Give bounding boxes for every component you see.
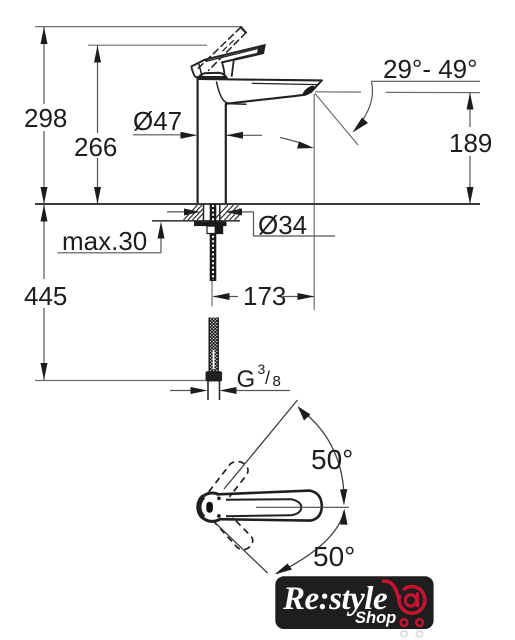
lever inner highlight (207, 48, 262, 62)
lever neck right (232, 60, 234, 76)
G3/8 tube left (207, 382, 209, 401)
head dot lower (217, 514, 221, 518)
lever bottom edge emphasis (236, 53, 263, 59)
faucet body right edge (225, 104, 227, 204)
svg-text:266: 266 (74, 132, 117, 162)
lever outer (219, 491, 322, 521)
spout end face (311, 80, 322, 92)
counter top line (35, 203, 480, 205)
dashed raised lever line A (198, 27, 241, 68)
dim 29-49 underline (372, 80, 481, 82)
lever outline (192, 45, 265, 66)
arrow 298 top (41, 27, 48, 44)
arrow 173 left (213, 293, 230, 300)
svg-text:445: 445 (24, 281, 67, 311)
arrow counter hole left (184, 209, 201, 216)
shank left wall (203, 204, 205, 221)
svg-text:173: 173 (243, 281, 286, 311)
svg-text:G: G (237, 366, 256, 393)
arrow upper arc top (298, 406, 311, 421)
lever neck left (222, 62, 225, 76)
crimp collar (206, 371, 223, 381)
arrow 298 bottom (41, 187, 48, 204)
spout top inner highlight (252, 83, 317, 84)
svg-text:298: 298 (24, 103, 67, 133)
svg-text:Ø34: Ø34 (258, 210, 307, 240)
cart @ (384, 581, 425, 626)
arrow lower arc top (340, 509, 348, 525)
arrow max30 up (158, 222, 165, 239)
dashed raised lever mid (220, 41, 234, 54)
svg-text:29°- 49°: 29°- 49° (383, 54, 478, 84)
handle centerline (256, 506, 349, 508)
aerator (301, 84, 316, 97)
arrow counter hole right (226, 209, 243, 216)
lower 50 line (216, 524, 268, 574)
lower 50 arc (277, 511, 344, 574)
lever beak bottom (192, 66, 203, 78)
counter hole arrow left tail (167, 211, 185, 213)
Ø34 leader (226, 211, 254, 213)
braided hose (209, 318, 218, 372)
ext line spout outlet horiz (189 top) (315, 91, 361, 93)
spout underside (226, 95, 304, 104)
shank right wall (219, 204, 221, 221)
logo box (275, 576, 433, 629)
arrow 29-49 arc end (353, 118, 369, 133)
dim 298 vertical (43, 27, 45, 104)
lever inner contour (226, 499, 301, 516)
GROHE dot capsule (206, 502, 213, 513)
dim 266 vertical (97, 46, 99, 134)
mounting nut (207, 226, 223, 233)
ext line hose end (445 bottom) (35, 380, 206, 382)
dim 173 tails (214, 296, 239, 298)
svg-text:Ø47: Ø47 (133, 106, 182, 136)
ext line vertical from outlet (313, 94, 315, 310)
ext line top 298 (35, 26, 243, 28)
arrow Ø47 left (181, 132, 198, 139)
wheels (401, 619, 408, 626)
dashed raised lever line B (209, 33, 247, 71)
threaded rod (210, 204, 217, 281)
arrow upper arc bottom (340, 489, 347, 506)
arc 29-49 (356, 81, 372, 128)
faucet centerline below rod (211, 281, 213, 307)
arrow 266 top (94, 46, 101, 63)
dashed capsule down (213, 517, 253, 549)
svg-text:/: / (265, 368, 270, 388)
arrow G38 left (191, 387, 208, 394)
arrow arc outlet (297, 142, 314, 149)
svg-text:max.30: max.30 (62, 226, 147, 256)
arrow lower arc bottom (275, 564, 293, 575)
raised lever tip cap (241, 27, 246, 32)
svg-text:8: 8 (273, 373, 281, 390)
escutcheon dome (198, 73, 226, 79)
arrow 445 top (41, 205, 48, 222)
arrow 445 bottom (41, 363, 48, 380)
svg-text:50°: 50° (311, 444, 353, 475)
svg-text:Shop: Shop (355, 609, 396, 627)
upper 50 line (224, 400, 298, 489)
head dot upper (217, 497, 221, 501)
lever beak back edge (199, 64, 202, 77)
arrow 189 bottom (467, 187, 474, 204)
arrow Ø47 right (226, 132, 243, 139)
faucet body left edge (197, 79, 199, 204)
counter bottom line (152, 220, 240, 222)
ext line 266 (88, 44, 207, 46)
lever tip dark fill (257, 45, 265, 55)
G3/8 line (170, 390, 194, 392)
dim Ø47 tail right (226, 134, 262, 136)
spray direction leader (315, 94, 358, 146)
dim 189 vertical (469, 93, 471, 127)
arrow 189 top (467, 93, 474, 110)
svg-text:50°: 50° (313, 541, 355, 572)
svg-text:189: 189 (449, 128, 492, 158)
wheel reflections (401, 631, 423, 637)
G3/8 tube right (219, 382, 221, 401)
arrow G38 right (220, 387, 237, 394)
arc at outlet vertical (280, 138, 309, 147)
hose highlight (213, 350, 215, 369)
arrow 266 bottom (94, 187, 101, 204)
neck inner curve (217, 82, 247, 104)
spout top edge (198, 79, 322, 80)
washer (194, 222, 227, 227)
upper 50 arc (302, 411, 344, 501)
escutcheon base bar (198, 76, 226, 79)
dim Ø47 leader left (133, 134, 185, 136)
dim 445 vertical (43, 204, 45, 279)
max30 leader (58, 252, 162, 254)
counter hatching (184, 205, 241, 220)
head thick left arc (199, 497, 204, 518)
head open arc (198, 493, 219, 521)
arrow 173 right (298, 293, 315, 300)
dashed capsule up (209, 461, 248, 496)
